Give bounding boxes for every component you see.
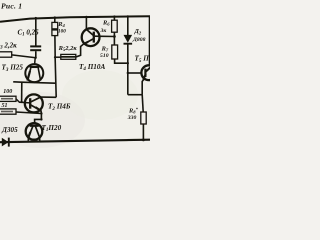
svg-text:330: 330 — [127, 115, 137, 121]
node: junction R2 / T2 emitter — [40, 112, 42, 114]
svg-text:Т3 П25: Т3 П25 — [2, 64, 24, 73]
wire: T5 collector lead (right edge) — [149, 16, 151, 65]
wire: R6 upper lead — [113, 17, 115, 21]
resistor R8 — [141, 112, 146, 124]
wire: drop from T3 emitter bus to T2 base — [21, 82, 23, 102]
svg-text:Т5 П: Т5 П — [135, 55, 150, 64]
svg-text:R52,2к: R52,2к — [58, 45, 78, 53]
transistor T4 — [82, 28, 100, 46]
wire: T5 base lead — [128, 72, 142, 74]
wire: D2 anode lead — [127, 16, 129, 35]
node: R5 junction — [54, 56, 56, 58]
wire: T3 base lead — [34, 58, 37, 65]
node: R7 junction on D2 column — [127, 62, 129, 64]
wire: R3 to T3 base — [12, 55, 36, 58]
node: junction on T2 base wire — [20, 101, 22, 103]
wire: R8 lower lead — [142, 124, 144, 140]
resistor R1 — [0, 96, 16, 101]
svg-text:3к: 3к — [100, 28, 107, 34]
wire: C1 lower lead — [35, 51, 37, 58]
wire: top supply rail — [0, 16, 150, 22]
node: T5 base junction — [127, 72, 129, 74]
node: corner dot at T1 base wire — [40, 118, 42, 120]
node: top-rail junction for R4 — [54, 16, 56, 18]
node: T4 base / divider junction — [113, 35, 116, 38]
wire: T2 emitter to T1 base — [35, 111, 42, 124]
svg-text:Рис. 1: Рис. 1 — [1, 2, 22, 11]
resistor R7 — [112, 45, 118, 59]
capacitor C1 plates — [30, 45, 41, 47]
resistor R6 — [112, 20, 118, 32]
wire: C1 upper lead — [35, 18, 37, 46]
diode D1 (in bottom rail) — [2, 138, 9, 147]
transistor T3 — [25, 64, 43, 82]
transistor T1 — [26, 123, 43, 140]
wire: emitter bus under T3 — [13, 82, 55, 83]
transistor T2 — [25, 94, 43, 112]
wire: node column to T2 collector — [41, 96, 56, 98]
node: top-rail junction for R6 — [113, 15, 115, 17]
svg-text:R3 2,2к: R3 2,2к — [0, 41, 17, 50]
wire: bottom rail — [0, 140, 150, 143]
wire: T4 base lead — [95, 35, 115, 37]
resistor R5 — [55, 56, 61, 58]
svg-text:Т1П20: Т1П20 — [42, 124, 62, 133]
wire: R7 lower lead to D2 column — [115, 59, 128, 63]
svg-text:510: 510 — [100, 53, 109, 59]
resistor R2 — [0, 109, 16, 114]
wire: R5 to T4 emitter — [76, 44, 84, 57]
node: top-rail junction for T4 — [85, 16, 87, 18]
diode D2 (zener) — [124, 35, 133, 43]
resistor R4 — [52, 22, 58, 35]
svg-text:100: 100 — [58, 28, 66, 34]
wire: T5 emitter to R8 column — [142, 79, 144, 95]
svg-text:С1 0,25: С1 0,25 — [18, 29, 40, 38]
svg-text:Д808: Д808 — [132, 37, 146, 43]
node: base junction of C1/R3/T3 — [34, 57, 36, 59]
wire: D2 cathode column — [127, 44, 129, 95]
wire: T1 emitter stub to rail — [27, 138, 29, 142]
wire: node column R4/R5/T3/T2 — [55, 36, 56, 98]
wire: R2 to T2 emitter node — [16, 112, 41, 114]
svg-text:Д1 Д305: Д1 Д305 — [0, 126, 18, 135]
node: top-rail junction for C1 — [35, 17, 37, 19]
node: top-rail junction for D2 — [127, 15, 129, 17]
node: bottom-rail junction at R8 — [142, 139, 145, 142]
wire: T1 collector stub to rail — [39, 138, 41, 142]
wire: R1 to T2 base — [16, 99, 25, 103]
wire: R6 to R7 — [113, 32, 115, 45]
svg-text:100: 100 — [3, 89, 12, 95]
wire: D2 column to R8 column — [128, 94, 142, 96]
wire: R4 upper lead — [54, 18, 56, 23]
transistor T5 — [141, 65, 156, 80]
resistor R3 — [0, 52, 12, 57]
svg-text:Т2 П4Б: Т2 П4Б — [48, 103, 71, 112]
svg-text:Т4 П10А: Т4 П10А — [79, 63, 105, 72]
wire: R8 upper lead — [142, 95, 143, 112]
wire: T4 collector lead — [85, 17, 87, 29]
